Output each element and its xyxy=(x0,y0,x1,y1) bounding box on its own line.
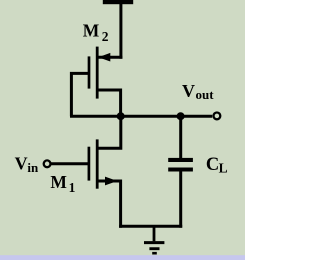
power supply VDD top bar xyxy=(103,0,133,4)
junction output node xyxy=(117,112,125,120)
svg-text:2: 2 xyxy=(102,29,109,44)
svg-text:V: V xyxy=(182,81,195,101)
transistor M2 xyxy=(89,47,122,99)
wire Vin to M1 gate xyxy=(51,162,89,165)
schematic background xyxy=(0,0,245,260)
svg-text:M: M xyxy=(50,172,67,192)
wire ground rail xyxy=(119,225,182,228)
wire M1 drain from output node xyxy=(97,115,121,148)
transistor M1 xyxy=(89,139,118,188)
svg-text:C: C xyxy=(206,155,219,175)
label M1 xyxy=(50,172,75,195)
terminal Vin xyxy=(44,160,51,167)
label Vin xyxy=(15,153,39,175)
junction CL tap xyxy=(177,112,185,120)
terminal Vout xyxy=(214,113,221,120)
svg-text:out: out xyxy=(196,87,215,102)
wire M1 source to ground rail xyxy=(97,181,121,228)
label Vout xyxy=(182,81,214,102)
svg-text:M: M xyxy=(83,21,100,41)
wire M2 gate loop to output node xyxy=(71,73,89,116)
bottom margin strip xyxy=(0,255,245,260)
wire CL bottom xyxy=(179,171,182,228)
wire M2 drain to output node xyxy=(97,90,121,116)
wire VDD rail xyxy=(119,1,122,59)
label M2 xyxy=(83,21,109,44)
capacitor CL xyxy=(168,158,193,172)
ground xyxy=(144,226,164,253)
svg-text:1: 1 xyxy=(69,180,76,195)
wire CL top xyxy=(179,116,182,158)
svg-text:V: V xyxy=(15,153,28,173)
label CL xyxy=(206,155,228,176)
svg-text:L: L xyxy=(219,160,228,175)
svg-text:in: in xyxy=(27,160,39,175)
wire output node xyxy=(70,115,212,118)
